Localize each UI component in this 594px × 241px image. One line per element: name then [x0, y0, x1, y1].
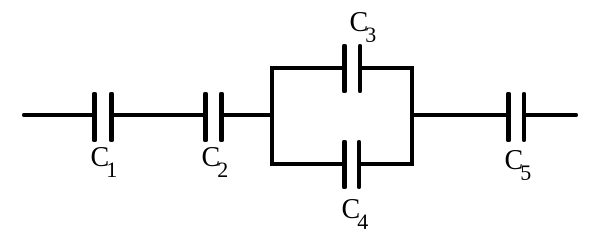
capacitor C4 right plate — [357, 140, 362, 189]
wire bottom branch right segment — [358, 162, 414, 166]
capacitor C2 left plate — [203, 92, 208, 142]
wire C2 to parallel box — [220, 113, 272, 117]
label C1 — [91, 144, 118, 172]
node left vertical of parallel box — [270, 66, 274, 166]
wire left lead — [22, 113, 96, 117]
node right vertical of parallel box — [410, 66, 414, 166]
label C3 — [350, 9, 377, 37]
wire parallel box to C5 — [412, 113, 508, 117]
wire C1 to C2 — [110, 113, 206, 117]
capacitor C1 right plate — [109, 92, 114, 142]
label C2 — [202, 144, 229, 172]
capacitor C5 left plate — [506, 92, 511, 142]
capacitor C1 left plate — [92, 92, 97, 142]
wire bottom branch left segment — [270, 162, 344, 166]
wire top branch left segment — [270, 66, 344, 70]
label C4 — [342, 196, 369, 224]
capacitor C2 right plate — [219, 92, 224, 142]
label C5 — [505, 147, 532, 175]
wire right lead — [523, 113, 578, 117]
capacitor C3 left plate — [342, 44, 347, 93]
capacitor C5 right plate — [522, 92, 527, 142]
capacitor C4 left plate — [342, 140, 347, 189]
wire top branch right segment — [359, 66, 414, 70]
capacitor C3 right plate — [358, 44, 363, 93]
